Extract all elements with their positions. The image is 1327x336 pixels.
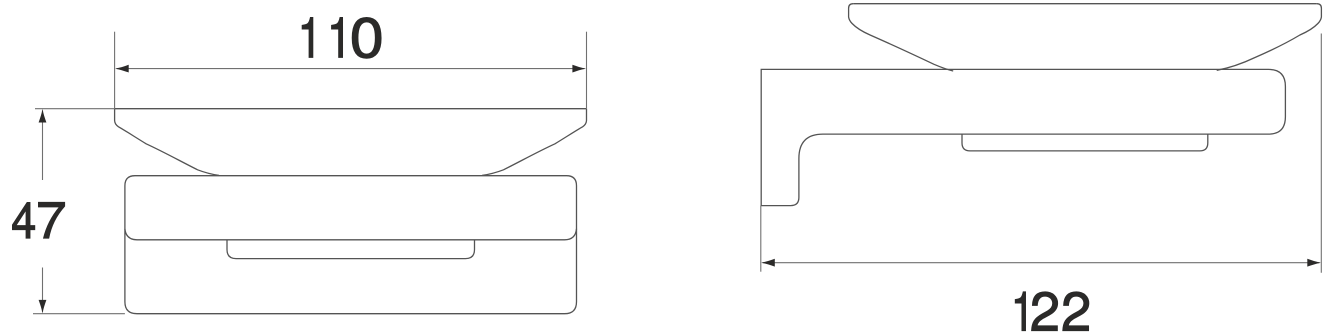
dim 47: top extension line bbox=[35, 108, 115, 110]
dim 122: right arrow bbox=[1307, 259, 1321, 267]
front view: bowl left wall bbox=[115, 109, 219, 176]
dim 110 label digit 0 bbox=[352, 17, 381, 58]
dim 110 label digit 1 bbox=[332, 17, 343, 57]
dim 122: horizontal dimension line bbox=[763, 262, 1320, 264]
dim 110: right arrow bbox=[572, 65, 586, 73]
dim 122: left extension line bbox=[760, 206, 762, 272]
front view: inner slot U bbox=[227, 240, 475, 258]
front view: holder divider line bbox=[125, 229, 577, 240]
dim 122 label digit 2 bbox=[1063, 292, 1089, 331]
dim 110: left arrow bbox=[115, 65, 129, 73]
dim 110 label digit 1 bbox=[302, 17, 313, 57]
dim 47: bottom extension line bbox=[33, 313, 125, 315]
dim 47 label digit 7 bbox=[39, 202, 65, 238]
side view: bowl left wall curve bbox=[849, 4, 954, 71]
side view: arm and wall bracket outline bbox=[761, 69, 1285, 205]
dim 110: horizontal dimension line bbox=[117, 68, 585, 70]
dim 122 label digit 2 bbox=[1032, 292, 1058, 331]
side view: bowl right wall curve bbox=[1217, 4, 1322, 71]
dim 122: left arrow bbox=[761, 259, 775, 267]
dim 47: top arrow bbox=[39, 109, 47, 123]
dim 110: right extension line bbox=[586, 32, 588, 109]
dim 122 label digit 1 bbox=[1015, 292, 1025, 331]
dim 47: bottom arrow bbox=[39, 300, 47, 314]
dim 47 label digit 4 bbox=[12, 202, 34, 238]
front view: bowl top rim line bbox=[115, 108, 587, 110]
dim 122: right extension line bbox=[1320, 34, 1322, 273]
side view: inner slot U bbox=[962, 134, 1208, 151]
dim 47: vertical dimension line bbox=[42, 111, 44, 312]
front view: bowl right wall bbox=[482, 109, 586, 176]
front view: holder body outline bbox=[125, 176, 577, 314]
side view: bowl top rim line bbox=[853, 3, 1317, 5]
dim 110: left extension line bbox=[114, 32, 116, 109]
